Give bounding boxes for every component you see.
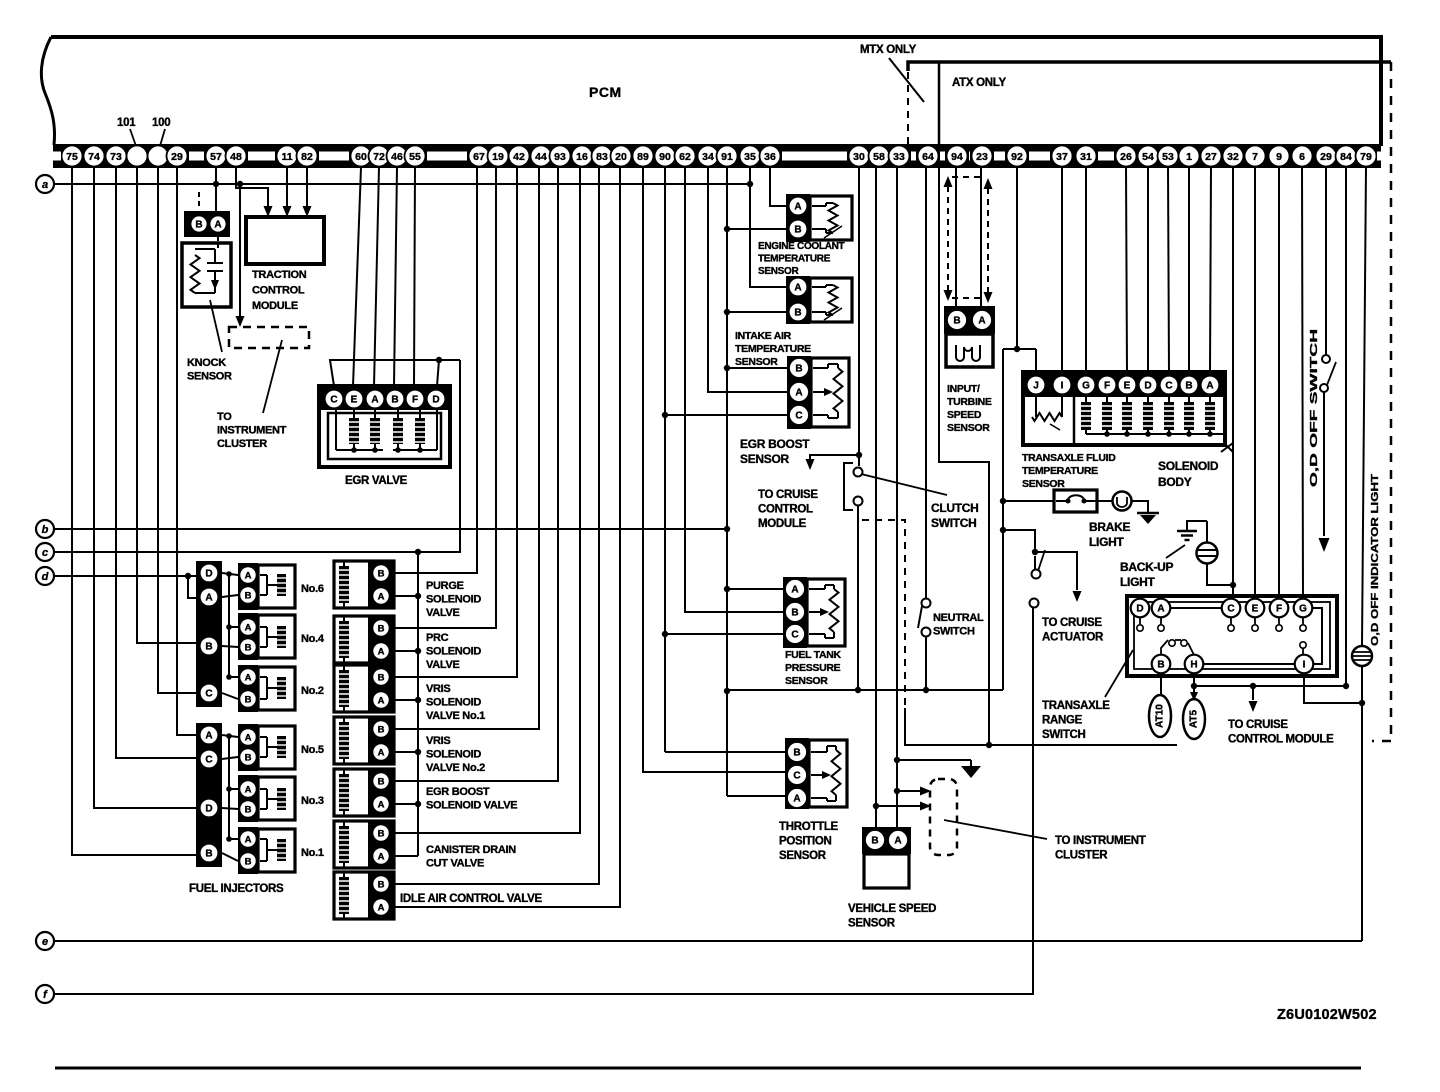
svg-text:B: B: [1185, 380, 1192, 391]
PCM pin 82: [297, 146, 318, 167]
svg-text:I: I: [1303, 659, 1306, 670]
svg-text:53: 53: [1162, 151, 1174, 163]
IAT thermistor: [829, 285, 838, 315]
PRC solenoid valve: [334, 616, 394, 663]
svg-text:100: 100: [152, 117, 170, 129]
svg-text:35: 35: [744, 151, 756, 163]
wire bus to No.2 A: [229, 676, 238, 678]
junction pin91 bus / switch bus: [724, 688, 730, 694]
wire bus to No.4 A: [229, 626, 238, 628]
svg-text:B: B: [245, 694, 252, 705]
svg-text:82: 82: [301, 151, 313, 163]
junction pin90 bus: [662, 631, 668, 637]
knock sensor: [182, 243, 231, 307]
switch blade: [1038, 550, 1045, 571]
junction pin57 / bus a: [213, 181, 219, 187]
range switch inner wire A-C: [1170, 607, 1222, 609]
svg-text:B: B: [378, 724, 385, 735]
svg-text:KNOCKSENSOR: KNOCKSENSOR: [187, 357, 232, 383]
wire bus b: [54, 528, 727, 530]
wire bus e: [54, 940, 1362, 942]
arrow up dashed: [984, 178, 993, 189]
svg-text:89: 89: [637, 151, 649, 163]
svg-text:58: 58: [873, 151, 885, 163]
wire canister A to bus end: [390, 855, 418, 857]
wire pin23 to input/turbine sensor A: [980, 167, 982, 306]
svg-text:33: 33: [893, 151, 905, 163]
svg-text:23: 23: [976, 151, 988, 163]
junction H wire: [1191, 683, 1197, 689]
PCM pin 23: [972, 146, 993, 167]
svg-text:67: 67: [473, 151, 485, 163]
svg-text:101: 101: [117, 117, 136, 129]
svg-text:36: 36: [764, 151, 776, 163]
range switch movable contact: [1169, 640, 1175, 646]
svg-text:c: c: [42, 547, 48, 559]
junction switch bus: [923, 687, 929, 693]
PCM pin 60: [351, 146, 372, 167]
wire pin82 to TCM: [306, 167, 308, 207]
svg-text:42: 42: [513, 151, 525, 163]
svg-text:A: A: [214, 219, 221, 230]
PCM pin 90: [655, 146, 676, 167]
wire pin79 to indicator light: [1362, 167, 1366, 645]
wire bus a: [54, 183, 750, 185]
solenoid body coil: [1143, 402, 1153, 430]
svg-text:G: G: [1299, 603, 1307, 614]
wire pin30 to clutch switch: [858, 167, 860, 466]
svg-text:A: A: [978, 315, 985, 326]
wire pin74 to injector strip2 D: [94, 167, 196, 808]
neutral switch blade: [918, 606, 922, 628]
wire switch to bulb: [1097, 500, 1113, 502]
pin 101 pointer: [130, 129, 136, 146]
arrow down dashed: [984, 292, 993, 303]
wire bus d: [54, 575, 196, 577]
solenoid body coil: [1122, 402, 1132, 430]
junction brake light feed: [1000, 498, 1006, 504]
wire backup bulb to range switch C: [1207, 564, 1233, 585]
wire pin58 to VSS B: [875, 167, 877, 827]
svg-text:11: 11: [281, 151, 292, 163]
junction cruise actuator switch: [1032, 549, 1038, 555]
svg-text:92: 92: [1011, 151, 1023, 163]
ECT thermistor arrow: [824, 226, 842, 238]
svg-text:A: A: [245, 784, 252, 795]
svg-text:1: 1: [1186, 151, 1192, 163]
wire strip2 A to No.5 A: [222, 735, 238, 737]
svg-text:B: B: [195, 219, 202, 230]
wire pin75 to injector strip2 B: [72, 167, 196, 855]
svg-text:26: 26: [1120, 151, 1132, 163]
wire solenoid A to bus: [390, 803, 418, 805]
svg-text:B: B: [794, 224, 801, 235]
svg-text:B: B: [245, 752, 252, 763]
svg-text:C: C: [793, 770, 800, 781]
wire pin64 to neutral switch: [925, 167, 927, 599]
PCM pin 26: [1116, 146, 1137, 167]
junction d branch: [185, 573, 191, 579]
junction bus a / cluster wire: [237, 181, 243, 187]
vehicle speed sensor: [862, 827, 911, 854]
PCM pin 37: [1052, 146, 1073, 167]
wire pin7 to range switch E: [1254, 167, 1256, 600]
svg-text:7: 7: [1252, 151, 1258, 163]
junction indicator light wire: [1359, 700, 1365, 706]
wire pin26 to solenoid body E: [1126, 167, 1127, 372]
svg-text:D: D: [1144, 380, 1151, 391]
svg-text:D: D: [205, 568, 212, 579]
arrow into TCM: [303, 206, 312, 217]
dashed stub below knock connector: [217, 237, 219, 249]
svg-text:J: J: [1033, 380, 1039, 391]
svg-text:A: A: [1206, 380, 1213, 391]
svg-text:B: B: [378, 776, 385, 787]
wire bulb to ground: [1131, 501, 1148, 512]
ECT thermistor: [829, 203, 838, 233]
injector No.3: [238, 775, 258, 822]
ATX ONLY box: [908, 62, 1391, 71]
svg-text:90: 90: [659, 151, 671, 163]
range switch contact: [1139, 617, 1141, 624]
wire bus c to EGR valve: [54, 360, 460, 552]
bottom rule: [55, 1067, 1361, 1070]
svg-text:64: 64: [922, 151, 934, 163]
backup light pointer: [1166, 545, 1185, 558]
junction clutch / cruise wire: [856, 452, 862, 458]
PCM pin 9: [1269, 146, 1290, 167]
wire pin9 to range switch F: [1278, 167, 1280, 600]
svg-text:No.2: No.2: [301, 685, 324, 697]
wire solenoid A to bus: [390, 595, 418, 597]
PCM pin 30: [849, 146, 870, 167]
junction b / pin91 bus: [724, 526, 730, 532]
wire to EGR valve D: [437, 360, 439, 386]
knock sensor pointer line: [210, 300, 222, 352]
svg-text:6: 6: [1299, 151, 1305, 163]
svg-text:PCM: PCM: [589, 84, 622, 100]
engine coolant temperature sensor: [810, 196, 852, 240]
svg-text:F: F: [412, 394, 418, 405]
svg-text:93: 93: [554, 151, 566, 163]
PCM pin 62: [675, 146, 696, 167]
wire switch common bus: [727, 689, 1003, 691]
arrow to cruise control module: [806, 459, 815, 470]
svg-text:D: D: [205, 803, 212, 814]
wire pin60 to EGR valve E: [353, 167, 361, 386]
svg-text:37: 37: [1056, 151, 1068, 163]
arrow into TCM: [283, 206, 292, 217]
wire VSS ground: [897, 759, 971, 761]
wire pin6 to range switch G: [1302, 167, 1303, 600]
PCM wavy left edge: [41, 37, 54, 145]
solenoid body coil: [1102, 402, 1112, 430]
svg-text:B: B: [791, 607, 798, 618]
EGR boost potentiometer: [834, 368, 843, 412]
svg-text:E: E: [1252, 603, 1259, 614]
PCM connector box outline: [51, 37, 1381, 146]
wire O/D switch to ground: [1323, 392, 1325, 536]
PCM pin 36: [760, 146, 781, 167]
PCM pin 53: [1158, 146, 1179, 167]
svg-text:A: A: [245, 622, 252, 633]
wire bus to No.3 A: [229, 788, 238, 790]
wire bus c to EGR valve C: [330, 360, 460, 386]
VRIS solenoid valve No.2: [334, 717, 394, 764]
MTX ONLY pointer line: [889, 58, 924, 102]
svg-text:A: A: [793, 793, 800, 804]
idle air control valve: [334, 872, 394, 919]
junction pin90 bus: [662, 412, 668, 418]
TPS potentiometer: [832, 750, 841, 795]
junction EGR valve D feed: [436, 357, 442, 363]
svg-text:AT5: AT5: [1189, 709, 1200, 728]
svg-text:91: 91: [721, 151, 733, 163]
wire pin90 bus to EGR boost C: [665, 414, 787, 416]
svg-text:A: A: [245, 570, 252, 581]
range switch inner outline: [1134, 602, 1330, 669]
PCM pin 83: [592, 146, 613, 167]
junction VSS B / cluster arrow: [873, 803, 879, 809]
neutral switch: [922, 599, 931, 608]
wire pin73 to injector strip2 C: [116, 167, 196, 758]
dashed instrument cluster box: [229, 327, 309, 348]
svg-text:C: C: [791, 629, 798, 640]
svg-text:9: 9: [1276, 151, 1282, 163]
svg-text:B: B: [378, 828, 385, 839]
ATX dashed bottom border: [1372, 740, 1391, 743]
PCM pin 89: [633, 146, 654, 167]
wire to instrument cluster: [897, 790, 923, 792]
junction A bus: [415, 648, 421, 654]
wire bus a to instrument cluster: [239, 184, 241, 317]
ground (VSS): [961, 766, 981, 778]
wire pin27 to solenoid body A: [1210, 167, 1211, 372]
PCM pin 6: [1292, 146, 1313, 167]
solenoid valve A common bus: [417, 552, 419, 856]
PCM pin 27: [1201, 146, 1222, 167]
wire switch bus up to pin92 tee: [1002, 349, 1004, 690]
PCM pin 34: [698, 146, 719, 167]
injector No.4: [238, 613, 258, 660]
wire strip2 B to No.1 B: [222, 853, 238, 861]
svg-text:A: A: [245, 732, 252, 743]
wire strip1 A to No.6 B: [222, 595, 238, 597]
PCM pin 57: [206, 146, 227, 167]
wire strip1 C to No.2 B: [222, 693, 238, 699]
svg-text:34: 34: [702, 151, 714, 163]
ATX dashed right border: [1390, 62, 1393, 741]
svg-text:B: B: [953, 315, 960, 326]
MTX/ATX divider wire: [938, 62, 941, 146]
junction pin91 bus: [724, 586, 730, 592]
svg-text:Z6U0102W502: Z6U0102W502: [1277, 1007, 1377, 1023]
cruise actuator cut switch: [1032, 570, 1041, 579]
brake light switch: [1054, 490, 1097, 512]
range switch contact: [1254, 617, 1256, 624]
arrow down dashed: [944, 290, 953, 301]
MTX dashed boundary: [907, 72, 909, 148]
svg-text:55: 55: [409, 151, 421, 163]
clutch switch bracket: [844, 463, 853, 510]
svg-text:b: b: [42, 524, 49, 536]
svg-text:MTX ONLY: MTX ONLY: [860, 44, 917, 56]
back-up light bulb: [1197, 543, 1218, 564]
svg-text:H: H: [1190, 659, 1197, 670]
PCM pin 67: [469, 146, 490, 167]
svg-text:EGR VALVE: EGR VALVE: [345, 475, 408, 487]
junction pin92 tee: [1014, 346, 1020, 352]
wire pin37 to solenoid body I: [1061, 167, 1063, 372]
FTP potentiometer: [830, 589, 839, 632]
wire pin48 to TCM: [236, 167, 268, 207]
svg-text:D: D: [432, 394, 439, 405]
injector No.5: [238, 724, 258, 771]
PCM pin 73: [106, 146, 127, 167]
svg-text:72: 72: [373, 151, 385, 163]
throttle position sensor: [785, 738, 809, 809]
svg-text:AT10: AT10: [1155, 704, 1166, 728]
node c: [36, 543, 54, 561]
wire solenoid A to bus: [390, 650, 418, 652]
svg-text:A: A: [378, 591, 385, 602]
svg-text:B: B: [205, 641, 212, 652]
PCM pin blank: [127, 146, 148, 167]
wire to backup bulb: [1206, 521, 1208, 543]
wire pin100 to injector strip1 C: [158, 167, 196, 693]
wire to cruise control module (right): [1252, 686, 1254, 700]
wire pin20 to idle air control valve A: [390, 167, 620, 907]
junction c / solenoid A-bus: [415, 549, 421, 555]
junction switch bus: [855, 687, 861, 693]
wire to solenoid body J: [1035, 349, 1037, 372]
ground (brake light): [1137, 513, 1159, 524]
PCM pin 20: [611, 146, 632, 167]
range switch contact: [1230, 617, 1232, 624]
svg-text:75: 75: [66, 151, 78, 163]
svg-text:a: a: [42, 179, 48, 191]
arrow into AT5: [1190, 692, 1198, 701]
knock sensor connector: [184, 211, 230, 237]
junction A bus: [415, 801, 421, 807]
svg-text:C: C: [1227, 603, 1234, 614]
wire clutch to cruise control module: [810, 455, 859, 468]
svg-text:F: F: [1104, 380, 1110, 391]
dashed MTX alternate connector box: [948, 177, 988, 298]
PCM pin 29: [167, 146, 188, 167]
svg-text:A: A: [795, 387, 802, 398]
svg-text:F: F: [1276, 603, 1282, 614]
PCM pin 16: [572, 146, 593, 167]
PCM pin 33: [889, 146, 910, 167]
clutch switch: [854, 468, 863, 477]
svg-text:60: 60: [355, 151, 367, 163]
svg-text:57: 57: [210, 151, 222, 163]
svg-text:46: 46: [391, 151, 403, 163]
fuel tank pressure sensor: [783, 577, 807, 648]
svg-text:B: B: [378, 879, 385, 890]
wire pin91 sensor ground bus: [726, 167, 728, 796]
transaxle fluid temperature sensor: [1035, 395, 1037, 417]
wire pin36 to ECT A: [770, 167, 786, 206]
EGR valve: [319, 386, 450, 467]
PCM pin 74: [84, 146, 105, 167]
input/turbine speed sensor: [944, 306, 995, 334]
wire MTX divider down to AT5 line: [939, 146, 989, 745]
PCM pin 46: [387, 146, 408, 167]
svg-text:B: B: [245, 804, 252, 815]
fuel injector connector strip 1: [196, 561, 222, 707]
ground arrow (O/D off switch): [1319, 538, 1330, 552]
arrow into cluster: [920, 787, 931, 796]
svg-text:O,D OFF SWITCH: O,D OFF SWITCH: [1308, 329, 1320, 487]
PCM pin 79: [1356, 146, 1377, 167]
wire solenoid A to bus: [390, 699, 418, 701]
wire solenoid A to bus: [390, 751, 418, 753]
node b: [36, 520, 54, 538]
svg-text:A: A: [894, 835, 901, 846]
wire bus to No.1 A: [229, 838, 238, 840]
svg-text:54: 54: [1142, 151, 1154, 163]
wire strip1 B to No.4 B: [222, 646, 238, 647]
wire pin16 to solenoid B: [390, 167, 580, 833]
instrument cluster pointer: [944, 820, 1047, 839]
wire solenoid bus exit: [1221, 443, 1233, 452]
VRIS solenoid valve No.1: [334, 665, 394, 712]
svg-text:ATX ONLY: ATX ONLY: [952, 77, 1006, 89]
wire pin83 to solenoid B: [390, 167, 599, 884]
junction pin84 / H wire: [1343, 683, 1349, 689]
wire ground to backup bulb: [1187, 521, 1207, 530]
arrow into cluster: [920, 802, 931, 811]
svg-text:CLUTCHSWITCH: CLUTCHSWITCH: [931, 501, 979, 530]
wire strip1 D to No.6 A: [222, 573, 238, 575]
PCM pin 48: [226, 146, 247, 167]
junction ECT B: [724, 226, 730, 232]
wire bus f to cruise switch: [54, 605, 1033, 994]
svg-text:A: A: [378, 747, 385, 758]
wire to AT5/instrument: [905, 708, 1177, 745]
svg-text:19: 19: [492, 151, 504, 163]
wire pin62 to FTP B: [685, 167, 783, 612]
PCM pin 55: [405, 146, 426, 167]
dashed instrument cluster box (right): [930, 779, 957, 855]
svg-text:FUEL INJECTORS: FUEL INJECTORS: [189, 883, 284, 895]
brake light bulb: [1113, 492, 1132, 511]
svg-text:D: D: [1136, 603, 1143, 614]
svg-text:B: B: [391, 394, 398, 405]
wire pin29 to injector strip2 A: [177, 167, 196, 735]
injector A bus 1: [228, 574, 230, 677]
PCM pin 72: [369, 146, 390, 167]
PCM pin 19: [488, 146, 509, 167]
intake air temperature sensor connector: [786, 276, 810, 324]
wire pin89 to TPS C: [643, 167, 785, 772]
svg-text:No.5: No.5: [301, 744, 324, 756]
junction backup / pin32 wire: [1230, 582, 1236, 588]
solenoid body common bus: [1086, 433, 1224, 435]
svg-text:A: A: [791, 584, 798, 595]
transaxle range switch: [1127, 596, 1337, 676]
EGR boost solenoid valve: [334, 769, 394, 816]
TFT thermistor: [1032, 413, 1062, 421]
svg-text:A: A: [245, 672, 252, 683]
wire pin54 to solenoid body D: [1147, 167, 1149, 372]
svg-text:C: C: [795, 410, 802, 421]
wire pin91 bus to TPS A: [727, 795, 785, 797]
arrow into TCM: [264, 206, 273, 217]
EGR valve coil: [415, 418, 425, 444]
